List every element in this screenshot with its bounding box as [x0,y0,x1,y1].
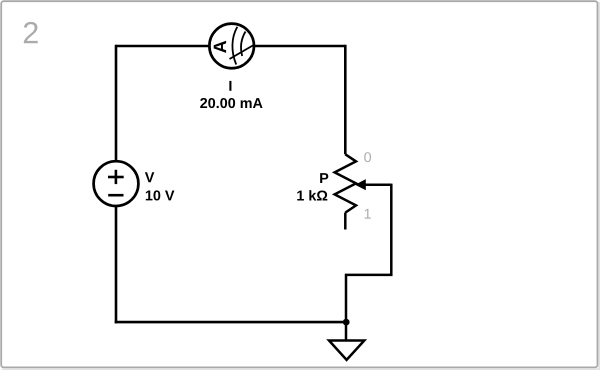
potentiometer P zigzag body [335,154,356,212]
wire wiper return to ground net [346,184,391,323]
wire right: potentiometer branch vertical [344,45,347,155]
ground stub wire [345,322,348,340]
wire bottom: ground net horizontal [115,321,346,324]
value 1 kOhm [297,190,327,200]
potentiometer wiper arrow [355,179,366,190]
wire wiper horizontal [364,184,391,187]
label I [229,81,231,91]
label V [145,172,154,182]
ammeter letter A [214,41,226,53]
pin label 1 [365,209,371,219]
value 20.00 mA [200,98,262,108]
label 2 (schematic number) [24,22,38,43]
ground symbol [329,341,364,360]
wire top net: source top to potentiometer top [116,45,345,48]
label P [320,173,328,183]
voltage source V [94,161,139,206]
junction node [343,319,350,326]
wire left: voltage source branch vertical [115,45,118,324]
potentiometer bottom stub (open pin 1) [344,213,347,230]
pin label 0 [364,152,371,162]
ammeter I [209,24,254,69]
value 10 V [146,190,175,200]
